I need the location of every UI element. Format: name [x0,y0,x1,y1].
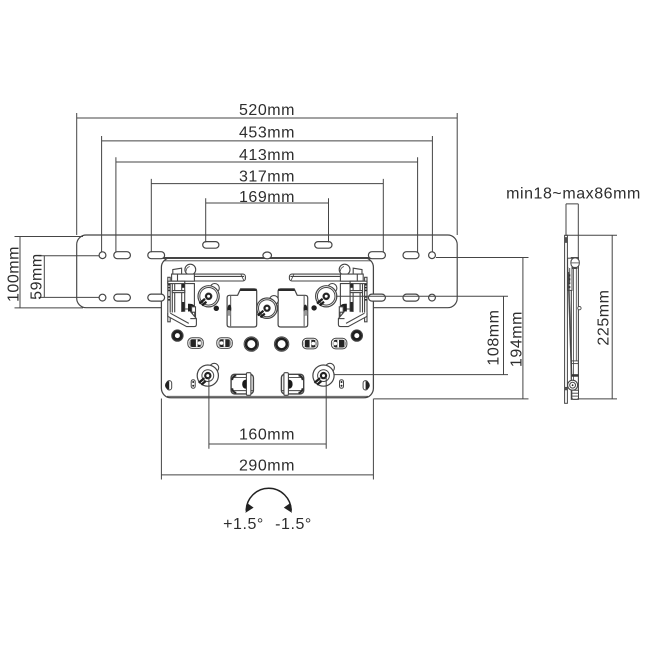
hook pawl dark [188,304,195,313]
side foot [572,390,579,399]
tilt arrow left [245,503,253,513]
svg-text:225mm: 225mm [596,289,613,345]
svg-text:453mm: 453mm [239,125,295,142]
side bottom knob [568,380,578,390]
dim 59mm line [39,256,100,298]
right edge pill [363,381,370,390]
side hinge bracket [568,258,572,290]
svg-text:290mm: 290mm [239,458,295,475]
side small stud [578,306,581,309]
dim 290mm line [161,399,373,480]
svg-text:520mm: 520mm [239,102,295,119]
side arm [571,258,578,400]
top-right ratchet dial [311,284,337,311]
svg-text:100mm: 100mm [5,246,22,302]
left rail dome [185,264,196,275]
svg-text:+1.5°: +1.5° [223,516,264,533]
top-left ratchet dial [198,284,219,311]
svg-text:59mm: 59mm [28,253,45,300]
dim min18~max86mm bracket [566,204,578,258]
dim 453mm line [102,136,433,252]
centre ring right [274,337,288,351]
right island (mirrored) [278,289,308,327]
svg-text:min18~max86mm: min18~max86mm [506,186,641,203]
bottom-right socket (mirrored) [281,373,303,396]
hook foot [168,311,197,326]
left tiny pin pair [191,380,195,389]
centre plate body [161,258,373,398]
mid clip 3 [302,338,318,349]
dim 413mm line [116,157,418,252]
right hook head block [353,268,362,274]
dim 520mm line [77,113,458,235]
dim 100mm line [15,237,84,308]
left hook head block [173,268,182,274]
mid clip 1 [188,338,204,349]
svg-text:-1.5°: -1.5° [275,516,312,533]
mid clip 4 [331,338,347,349]
right corner hook assembly (mirrored) [338,274,367,327]
right rail dome [339,264,350,275]
centre ring left [244,337,258,351]
dim 194mm line [374,258,529,399]
plate top centre hole [263,252,272,259]
tilt arrow right [284,503,292,513]
svg-text:160mm: 160mm [239,427,295,444]
dim 108mm line [335,296,509,374]
dim 160mm line [209,377,326,449]
bottom-left knob [197,363,219,386]
centre ratchet dial [257,296,279,319]
left edge ring [172,330,183,341]
right edge ring [351,330,362,341]
dim 225mm line [565,235,617,399]
left corner hook assembly [168,274,197,327]
svg-text:194mm: 194mm [509,311,526,367]
wall plate bar [77,235,458,308]
right top rail [289,274,362,281]
dim 169mm line [206,198,329,242]
svg-text:108mm: 108mm [486,309,503,365]
svg-text:169mm: 169mm [239,189,295,206]
bar holes top row [99,242,435,302]
left top rail [172,274,245,281]
tilt arc [245,488,292,513]
mid clip 2 [217,338,233,349]
right tiny pin pair [340,380,344,389]
bottom-right knob [313,363,335,386]
left island [227,289,257,327]
svg-text:317mm: 317mm [239,169,295,186]
side view wall strip [565,235,582,403]
svg-text:413mm: 413mm [239,147,295,164]
left edge pill [165,381,172,390]
bottom-left socket [231,373,253,396]
dim 317mm line [151,179,383,252]
